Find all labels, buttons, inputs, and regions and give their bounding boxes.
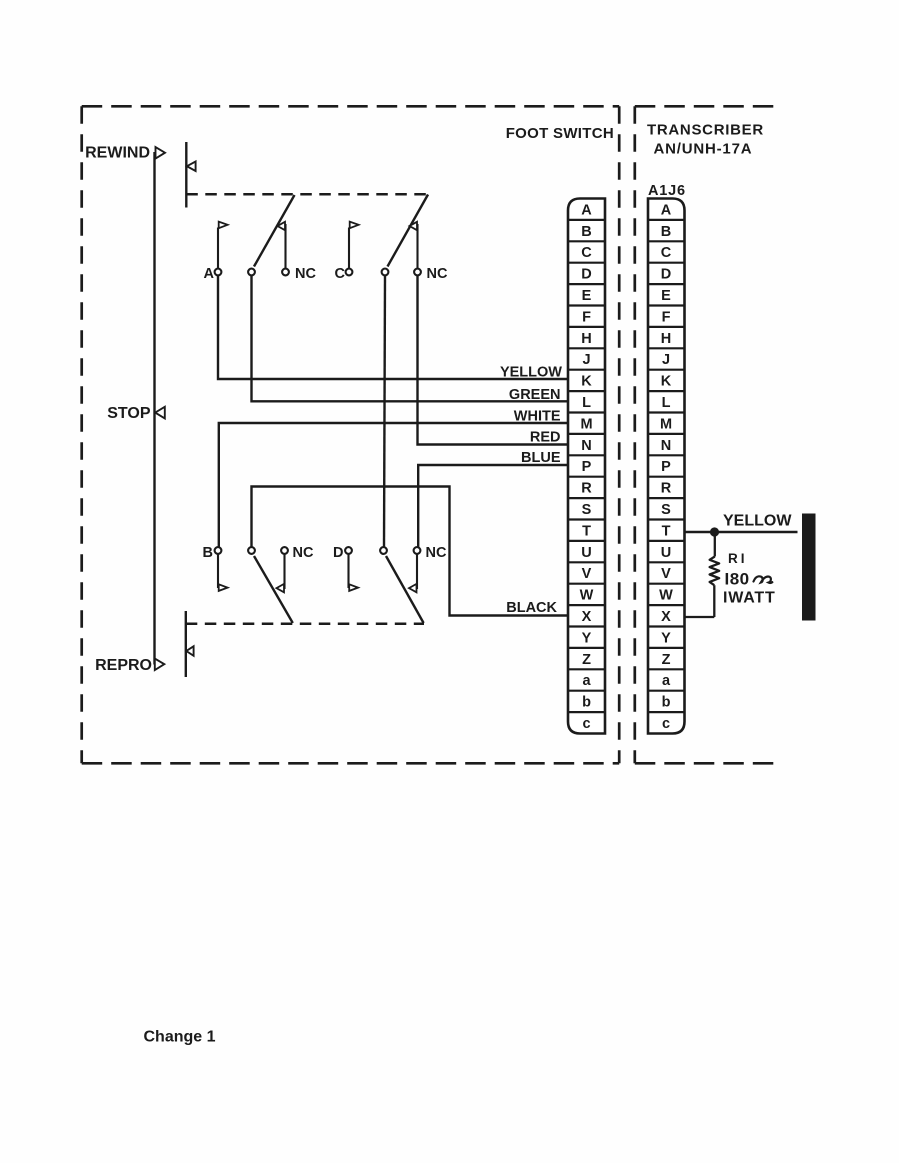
pin divider foot switch plug xyxy=(568,625,605,627)
svg-text:C: C xyxy=(661,245,672,261)
svg-text:M: M xyxy=(580,416,592,432)
pin divider A1J6 xyxy=(648,540,685,542)
wire WHITE (B to pin M) xyxy=(219,423,568,547)
pin divider A1J6 xyxy=(648,711,685,713)
svg-text:J: J xyxy=(662,352,670,368)
switch arm 2 (REWIND section) xyxy=(382,195,428,276)
svg-text:STOP: STOP xyxy=(107,405,151,422)
pin divider A1J6 xyxy=(648,647,685,649)
svg-text:M: M xyxy=(660,416,672,432)
svg-text:Y: Y xyxy=(661,630,671,646)
contact D xyxy=(345,547,358,591)
pin divider foot switch plug xyxy=(568,518,605,520)
svg-text:A: A xyxy=(661,202,672,218)
resistor R1 xyxy=(685,537,720,618)
svg-text:YELLOW: YELLOW xyxy=(723,513,792,530)
top linkage dashed tie rod xyxy=(186,193,428,196)
svg-text:R: R xyxy=(581,481,592,497)
svg-text:c: c xyxy=(662,716,670,732)
svg-text:BLACK: BLACK xyxy=(506,600,557,616)
wire BLUE (NC bottom right to pin P) xyxy=(418,465,568,547)
contact NC (top right) xyxy=(410,222,421,276)
pin divider foot switch plug xyxy=(568,326,605,328)
contact C xyxy=(346,222,359,276)
svg-text:Z: Z xyxy=(662,652,671,668)
svg-text:NC: NC xyxy=(426,545,447,561)
pin divider foot switch plug xyxy=(568,304,605,306)
svg-text:L: L xyxy=(582,395,591,411)
svg-text:T: T xyxy=(582,523,591,539)
svg-text:D: D xyxy=(661,267,671,283)
pin divider foot switch plug xyxy=(568,604,605,606)
svg-text:N: N xyxy=(581,438,591,454)
pin divider foot switch plug xyxy=(568,390,605,392)
svg-text:H: H xyxy=(581,331,591,347)
svg-text:b: b xyxy=(662,695,671,711)
svg-text:TRANSCRIBER: TRANSCRIBER xyxy=(647,122,764,139)
pin divider foot switch plug xyxy=(568,240,605,242)
cable continuation bar xyxy=(802,514,816,621)
bottom linkage bar xyxy=(185,611,187,677)
svg-text:RI: RI xyxy=(728,551,748,566)
pin divider foot switch plug xyxy=(568,711,605,713)
svg-text:T: T xyxy=(662,523,671,539)
pin divider A1J6 xyxy=(648,604,685,606)
svg-text:A1J6: A1J6 xyxy=(648,183,686,199)
svg-text:F: F xyxy=(582,309,591,325)
bottom linkage pointer xyxy=(186,646,193,656)
svg-text:E: E xyxy=(661,288,671,304)
svg-text:F: F xyxy=(662,309,671,325)
pin divider foot switch plug xyxy=(568,476,605,478)
pin divider A1J6 xyxy=(648,433,685,435)
svg-text:U: U xyxy=(661,545,671,561)
connector foot switch plug body xyxy=(568,199,605,734)
pin divider foot switch plug xyxy=(568,668,605,670)
svg-text:FOOT SWITCH: FOOT SWITCH xyxy=(506,125,614,142)
svg-text:N: N xyxy=(661,438,671,454)
svg-text:H: H xyxy=(661,331,671,347)
pin divider foot switch plug xyxy=(568,369,605,371)
svg-text:A: A xyxy=(581,202,592,218)
svg-text:P: P xyxy=(661,459,671,475)
pin divider foot switch plug xyxy=(568,583,605,585)
pin divider A1J6 xyxy=(648,326,685,328)
pin divider foot switch plug xyxy=(568,454,605,456)
svg-text:W: W xyxy=(580,588,594,604)
svg-text:X: X xyxy=(661,609,671,625)
svg-text:RED: RED xyxy=(530,430,561,446)
svg-text:IWATT: IWATT xyxy=(723,590,776,607)
enclosure TRANSCRIBER AN/UNH-17A dashed box xyxy=(635,106,780,763)
svg-text:L: L xyxy=(662,395,671,411)
svg-text:D: D xyxy=(333,545,343,561)
switch arm 4 (REPRO section) xyxy=(380,547,424,623)
wire YELLOW (A1J6 pin T to cable) xyxy=(685,531,798,533)
svg-text:REPRO: REPRO xyxy=(95,657,152,674)
pin divider A1J6 xyxy=(648,561,685,563)
enclosure FOOT SWITCH dashed box xyxy=(82,106,620,763)
pin divider foot switch plug xyxy=(568,283,605,285)
svg-text:YELLOW: YELLOW xyxy=(500,365,562,381)
pin divider A1J6 xyxy=(648,283,685,285)
svg-text:NC: NC xyxy=(427,266,448,282)
pin divider A1J6 xyxy=(648,262,685,264)
switch arm 1 (REWIND section) xyxy=(248,195,294,275)
svg-text:Change 1: Change 1 xyxy=(144,1029,216,1046)
switch arm 3 (REPRO section) xyxy=(248,547,293,623)
pin divider A1J6 xyxy=(648,625,685,627)
svg-text:Y: Y xyxy=(582,630,592,646)
pin divider foot switch plug xyxy=(568,433,605,435)
svg-text:B: B xyxy=(203,545,213,561)
REWIND pointer xyxy=(156,147,166,159)
svg-text:U: U xyxy=(581,545,591,561)
svg-text:b: b xyxy=(582,695,591,711)
svg-text:J: J xyxy=(582,352,590,368)
svg-text:E: E xyxy=(582,288,592,304)
pin divider A1J6 xyxy=(648,583,685,585)
svg-text:Z: Z xyxy=(582,652,591,668)
svg-text:c: c xyxy=(582,716,590,732)
pin divider A1J6 xyxy=(648,668,685,670)
wire RED (NC top right to pin N) xyxy=(418,275,569,444)
top linkage pointer xyxy=(187,162,196,172)
contact B xyxy=(215,547,228,591)
pin divider foot switch plug xyxy=(568,497,605,499)
svg-text:B: B xyxy=(661,224,671,240)
pin divider A1J6 xyxy=(648,219,685,221)
pin divider foot switch plug xyxy=(568,540,605,542)
STOP pointer xyxy=(155,407,165,419)
svg-text:AN/UNH-17A: AN/UNH-17A xyxy=(654,141,753,158)
wire YELLOW (A to pin K) xyxy=(218,275,568,379)
pin divider A1J6 xyxy=(648,390,685,392)
svg-text:S: S xyxy=(582,502,592,518)
svg-text:R: R xyxy=(661,481,672,497)
wire GREEN (arm 1 to pin L) xyxy=(252,275,569,401)
svg-text:P: P xyxy=(582,459,592,475)
svg-text:S: S xyxy=(661,502,671,518)
pin divider foot switch plug xyxy=(568,647,605,649)
svg-text:D: D xyxy=(581,267,591,283)
connector A1J6 body xyxy=(648,199,685,734)
svg-text:WHITE: WHITE xyxy=(514,409,561,425)
svg-text:BLUE: BLUE xyxy=(521,450,561,466)
wire BLACK (arm 3 to pin X) xyxy=(252,487,569,616)
ohm symbol xyxy=(754,576,773,583)
svg-text:a: a xyxy=(582,673,591,689)
pin divider foot switch plug xyxy=(568,690,605,692)
pin divider foot switch plug xyxy=(568,219,605,221)
svg-text:GREEN: GREEN xyxy=(509,387,561,403)
junction node on pin T wire xyxy=(710,527,719,536)
pin divider A1J6 xyxy=(648,518,685,520)
REPRO pointer xyxy=(155,659,165,670)
pin divider foot switch plug xyxy=(568,411,605,413)
svg-text:C: C xyxy=(581,245,592,261)
pin divider A1J6 xyxy=(648,347,685,349)
svg-text:NC: NC xyxy=(295,266,316,282)
actuator lever shaft xyxy=(153,152,155,665)
contact A xyxy=(215,222,228,276)
pin divider foot switch plug xyxy=(568,561,605,563)
pin divider A1J6 xyxy=(648,411,685,413)
pin divider A1J6 xyxy=(648,304,685,306)
svg-text:K: K xyxy=(661,374,672,390)
svg-text:W: W xyxy=(659,588,673,604)
bottom linkage dashed tie rod xyxy=(186,623,424,626)
top linkage bar xyxy=(185,142,187,208)
pin divider A1J6 xyxy=(648,497,685,499)
pin divider A1J6 xyxy=(648,369,685,371)
svg-text:a: a xyxy=(662,673,671,689)
svg-text:A: A xyxy=(204,266,215,282)
pin divider foot switch plug xyxy=(568,262,605,264)
contact NC (top left) xyxy=(278,222,289,276)
svg-text:X: X xyxy=(582,609,592,625)
contact NC (bottom left) xyxy=(277,547,288,592)
svg-text:B: B xyxy=(581,224,591,240)
pin divider A1J6 xyxy=(648,454,685,456)
contact NC (bottom right) xyxy=(409,547,420,592)
svg-text:I80: I80 xyxy=(725,570,750,589)
pin divider A1J6 xyxy=(648,240,685,242)
svg-text:K: K xyxy=(581,374,592,390)
svg-text:V: V xyxy=(582,566,592,582)
pin divider A1J6 xyxy=(648,690,685,692)
pin divider foot switch plug xyxy=(568,347,605,349)
svg-text:C: C xyxy=(335,266,346,282)
wire common (arm 2 to arm 4) xyxy=(384,275,385,547)
svg-text:V: V xyxy=(661,566,671,582)
svg-text:NC: NC xyxy=(293,545,314,561)
svg-text:REWIND: REWIND xyxy=(85,145,150,162)
pin divider A1J6 xyxy=(648,476,685,478)
